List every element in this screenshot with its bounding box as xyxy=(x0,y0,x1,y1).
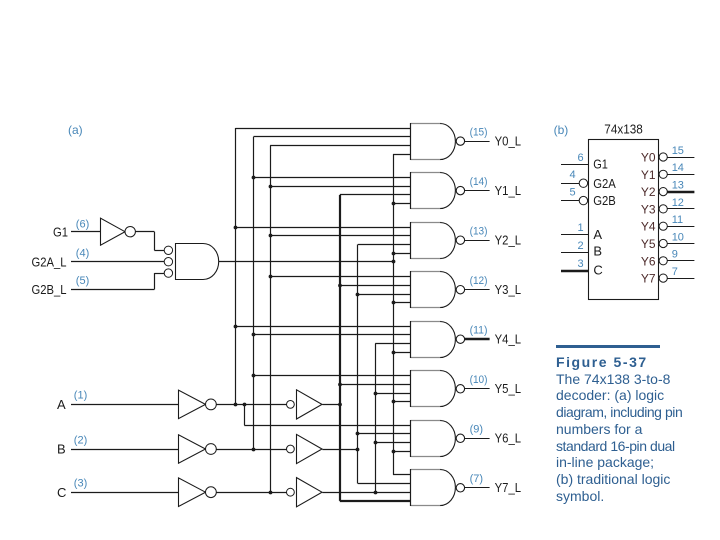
svg-text:B: B xyxy=(57,442,66,457)
svg-text:(7): (7) xyxy=(470,473,483,485)
svg-text:Y6_L: Y6_L xyxy=(495,432,521,446)
svg-text:3: 3 xyxy=(577,258,583,270)
svg-text:(12): (12) xyxy=(470,275,488,287)
svg-text:(4): (4) xyxy=(76,247,89,259)
svg-text:11: 11 xyxy=(672,214,683,226)
svg-text:(3): (3) xyxy=(74,478,87,490)
svg-text:Y5_L: Y5_L xyxy=(495,382,521,396)
svg-text:C: C xyxy=(57,485,66,500)
svg-text:1: 1 xyxy=(577,222,583,234)
svg-text:A: A xyxy=(57,397,66,412)
svg-text:5: 5 xyxy=(569,186,575,198)
svg-text:(2): (2) xyxy=(74,434,87,446)
svg-text:Y1_L: Y1_L xyxy=(495,184,521,198)
svg-text:Y5: Y5 xyxy=(641,237,656,251)
svg-text:12: 12 xyxy=(672,197,684,209)
svg-text:(13): (13) xyxy=(470,225,488,237)
svg-text:(15): (15) xyxy=(470,126,488,138)
svg-text:Y6: Y6 xyxy=(641,254,656,268)
svg-text:10: 10 xyxy=(672,231,684,243)
svg-text:A: A xyxy=(593,227,602,242)
svg-text:C: C xyxy=(593,263,602,278)
svg-text:Y0: Y0 xyxy=(641,151,656,165)
svg-text:(6): (6) xyxy=(76,219,89,231)
svg-text:G2B: G2B xyxy=(593,194,616,208)
svg-text:G2A: G2A xyxy=(593,177,616,191)
svg-text:Y7: Y7 xyxy=(641,272,656,286)
svg-text:Y7_L: Y7_L xyxy=(495,481,521,495)
svg-text:(1): (1) xyxy=(74,390,87,402)
svg-text:G2B_L: G2B_L xyxy=(32,282,67,297)
svg-text:Y1: Y1 xyxy=(641,168,656,182)
svg-text:Y3_L: Y3_L xyxy=(495,283,521,297)
svg-text:4: 4 xyxy=(569,169,575,181)
svg-text:G2A_L: G2A_L xyxy=(32,254,67,269)
svg-text:14: 14 xyxy=(672,162,684,174)
svg-text:15: 15 xyxy=(672,145,684,157)
svg-text:G1: G1 xyxy=(593,158,608,172)
svg-text:6: 6 xyxy=(577,152,583,164)
svg-text:B: B xyxy=(593,244,602,259)
svg-text:9: 9 xyxy=(672,249,678,261)
svg-text:(a): (a) xyxy=(68,123,83,137)
svg-text:2: 2 xyxy=(577,240,583,252)
svg-text:74x138: 74x138 xyxy=(604,122,643,137)
svg-text:Y2_L: Y2_L xyxy=(495,233,521,247)
svg-text:(b): (b) xyxy=(554,123,569,137)
svg-text:Y4_L: Y4_L xyxy=(495,332,521,346)
svg-text:7: 7 xyxy=(672,266,678,278)
svg-text:Y4: Y4 xyxy=(641,220,656,234)
svg-text:(5): (5) xyxy=(76,275,89,287)
svg-text:(11): (11) xyxy=(470,324,488,336)
svg-text:Y0_L: Y0_L xyxy=(495,134,521,148)
svg-text:(10): (10) xyxy=(470,374,488,386)
svg-text:(9): (9) xyxy=(470,424,483,436)
svg-text:Y2: Y2 xyxy=(641,185,656,199)
svg-text:(14): (14) xyxy=(470,176,488,188)
svg-text:G1: G1 xyxy=(53,224,68,239)
svg-text:Y3: Y3 xyxy=(641,202,656,216)
svg-text:13: 13 xyxy=(672,180,684,192)
